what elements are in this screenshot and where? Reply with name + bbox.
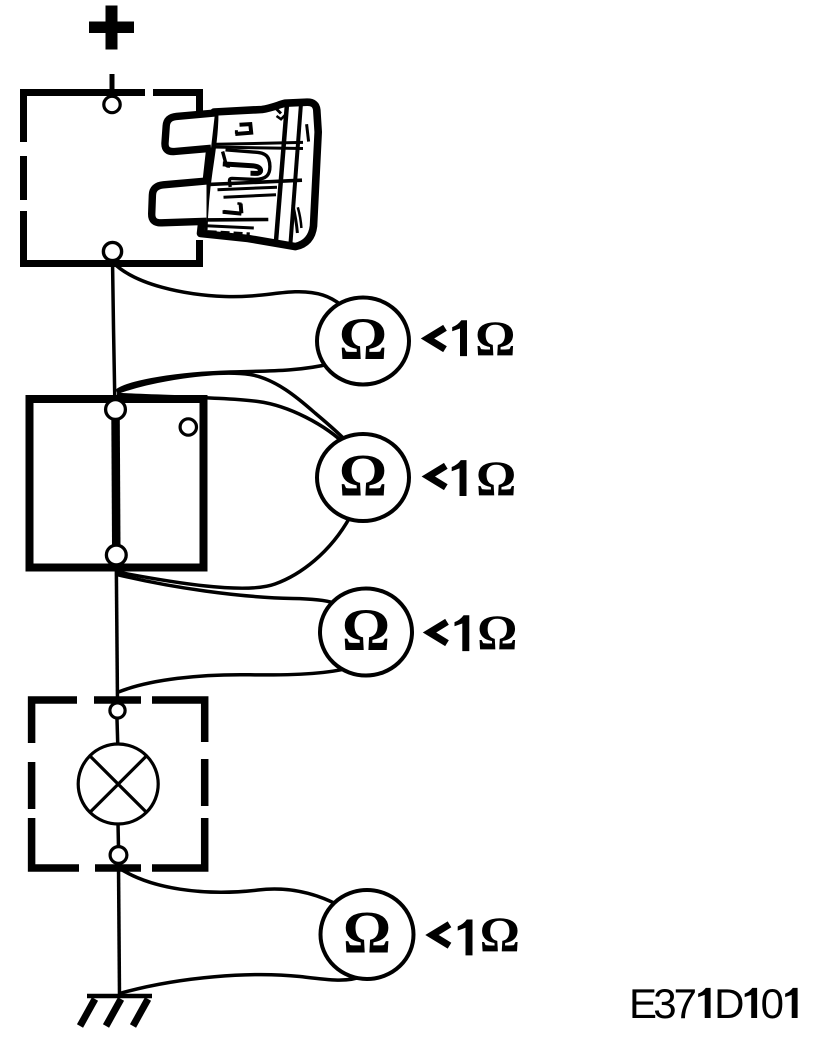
svg-text:0: 0	[761, 980, 784, 1027]
svg-text:Ω: Ω	[477, 604, 517, 660]
svg-text:Ω: Ω	[339, 443, 387, 509]
svg-text:Ω: Ω	[480, 906, 520, 962]
svg-text:D: D	[714, 980, 744, 1027]
svg-text:Ω: Ω	[342, 597, 390, 663]
svg-text:Ω: Ω	[475, 310, 515, 366]
svg-text:7: 7	[674, 980, 697, 1027]
svg-text:Ω: Ω	[339, 306, 387, 372]
svg-text:Ω: Ω	[476, 450, 516, 506]
svg-text:Ω: Ω	[343, 900, 391, 966]
